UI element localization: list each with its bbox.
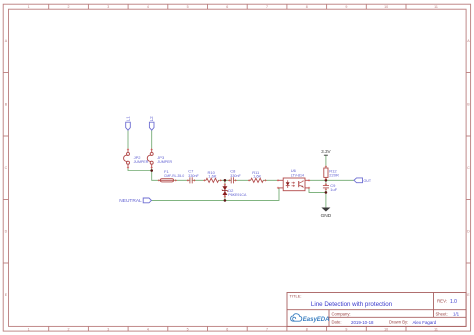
svg-text:Alex Fagard: Alex Fagard xyxy=(413,320,437,325)
svg-text:4: 4 xyxy=(147,5,149,9)
svg-text:REV:: REV: xyxy=(437,299,447,304)
svg-text:2: 2 xyxy=(68,5,70,9)
svg-text:TITLE:: TITLE: xyxy=(290,294,302,299)
svg-text:JUMPER: JUMPER xyxy=(157,160,172,164)
svg-text:10: 10 xyxy=(384,5,388,9)
svg-text:Line Detection with protection: Line Detection with protection xyxy=(311,301,393,308)
svg-text:CMF-RL-35-0: CMF-RL-35-0 xyxy=(164,174,184,178)
svg-text:D: D xyxy=(5,230,8,234)
svg-text:LTV-814: LTV-814 xyxy=(291,173,304,177)
svg-text:330nF: 330nF xyxy=(230,174,241,178)
svg-text:5: 5 xyxy=(187,327,189,331)
svg-text:220R: 220R xyxy=(329,173,339,178)
svg-text:6: 6 xyxy=(226,5,228,9)
svg-text:P6KE91CA: P6KE91CA xyxy=(228,193,247,197)
svg-text:7: 7 xyxy=(266,5,268,9)
svg-text:10: 10 xyxy=(384,327,388,331)
svg-text:3.3V: 3.3V xyxy=(321,149,331,154)
svg-text:3: 3 xyxy=(107,5,109,9)
svg-text:8: 8 xyxy=(306,5,308,9)
svg-text:11: 11 xyxy=(434,5,438,9)
svg-text:EasyEDA: EasyEDA xyxy=(303,317,330,323)
svg-text:NEUTRAL: NEUTRAL xyxy=(119,198,142,204)
svg-text:1.0: 1.0 xyxy=(450,299,457,305)
svg-text:9: 9 xyxy=(345,5,347,9)
svg-text:1uF: 1uF xyxy=(330,187,337,192)
svg-text:C: C xyxy=(467,166,470,170)
svg-text:11: 11 xyxy=(434,327,438,331)
svg-text:2: 2 xyxy=(68,327,70,331)
svg-text:1: 1 xyxy=(28,5,30,9)
svg-text:Sheet:: Sheet: xyxy=(436,312,448,317)
svg-text:1/1: 1/1 xyxy=(453,312,460,317)
svg-text:3: 3 xyxy=(107,327,109,331)
svg-text:1.6K: 1.6K xyxy=(253,174,262,179)
svg-text:8: 8 xyxy=(306,327,308,331)
svg-text:5: 5 xyxy=(187,5,189,9)
svg-text:4: 4 xyxy=(147,327,149,331)
svg-text:D: D xyxy=(467,230,470,234)
svg-text:1.6K: 1.6K xyxy=(208,174,217,179)
svg-text:Drawn By:: Drawn By: xyxy=(389,320,408,325)
svg-text:6: 6 xyxy=(226,327,228,331)
svg-text:7: 7 xyxy=(266,327,268,331)
svg-text:9: 9 xyxy=(345,327,347,331)
svg-text:2019-10-18: 2019-10-18 xyxy=(351,320,374,325)
svg-text:JUMPER: JUMPER xyxy=(134,160,149,164)
svg-text:Date:: Date: xyxy=(332,320,342,325)
svg-text:1: 1 xyxy=(28,327,30,331)
svg-text:GND: GND xyxy=(321,213,332,219)
svg-text:L1: L1 xyxy=(125,116,130,122)
svg-text:L2: L2 xyxy=(149,116,154,122)
svg-text:Company:: Company: xyxy=(332,311,351,316)
svg-text:C: C xyxy=(5,166,8,170)
svg-text:OUT: OUT xyxy=(364,179,372,183)
svg-text:330nF: 330nF xyxy=(188,174,199,178)
